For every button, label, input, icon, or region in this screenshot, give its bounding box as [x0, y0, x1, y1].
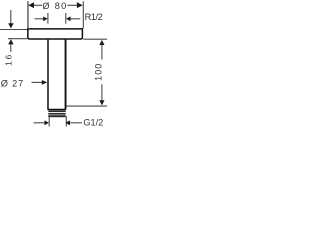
svg-text:R1/2: R1/2 [85, 12, 103, 22]
dim G1/2: left stem [34, 122, 45, 124]
dim 16: bottom arrow stem [10, 44, 12, 52]
dim Ø80: right extension line [82, 1, 84, 28]
dim 16: top arrowhead (down) [8, 23, 13, 28]
dim 16: bottom arrowhead (up) [8, 39, 13, 44]
dim 100: top extension line [83, 38, 107, 40]
dim Ø80: right arrowhead [77, 2, 83, 8]
dim G1/2: right arrowhead [65, 120, 70, 125]
svg-text:Ø 80: Ø 80 [42, 1, 66, 11]
dim R1/2: right extension line [65, 13, 67, 24]
dim G1/2: left extension line [48, 117, 50, 126]
svg-text:16: 16 [3, 54, 13, 65]
svg-text:G1/2: G1/2 [83, 117, 103, 127]
dim R1/2: right stem [70, 18, 80, 20]
pipe right edge [65, 40, 67, 110]
dim 100: bottom arrowhead (down) [99, 100, 104, 105]
dim G1/2: left arrowhead [45, 120, 49, 125]
dim G1/2: right stem [70, 122, 82, 124]
dim 16: top arrow stem [10, 10, 12, 24]
dim G1/2: right extension line [65, 116, 67, 126]
dim Ø27: arrowhead [42, 80, 47, 85]
dim Ø80: left extension line [27, 1, 29, 28]
dim R1/2: left arrowhead [43, 16, 47, 21]
dim 16: bottom extension line [8, 38, 27, 40]
dim 100: top arrowhead (up) [99, 40, 104, 45]
dim 100: lower stem [101, 84, 103, 100]
pipe left edge [47, 40, 49, 110]
pipe bottom shoulder [47, 108, 66, 110]
dim Ø27: leader stem [32, 81, 44, 83]
dim R1/2: right arrowhead [66, 16, 70, 21]
dim 100: bottom extension line [66, 105, 107, 107]
dim Ø80: left arrowhead [28, 2, 34, 8]
dim R1/2: left extension line [47, 13, 49, 24]
thread G1/2 stripes [48, 110, 65, 117]
dim R1/2: left stem [35, 18, 45, 20]
dim 100: upper stem [101, 45, 103, 60]
ceiling line left [0, 29, 28, 31]
svg-text:Ø 27: Ø 27 [1, 78, 23, 88]
flange (ceiling rosette) [28, 29, 83, 39]
dim Ø80: dimension line [33, 4, 42, 6]
svg-text:100: 100 [93, 64, 103, 81]
